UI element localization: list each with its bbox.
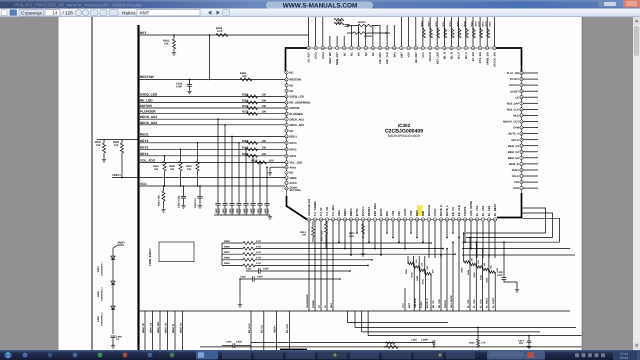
- wire right stub RXD: [523, 187, 538, 189]
- wire caps to ground bus: [239, 279, 241, 303]
- pin bottom EPP_RES: [373, 218, 376, 221]
- wire drop pin 24: [446, 221, 448, 237]
- svg-text:D306: D306: [97, 291, 100, 297]
- svg-text:100: 100: [302, 234, 307, 237]
- svg-text:10K: 10K: [170, 168, 175, 171]
- wire drop pin 25: [452, 221, 454, 233]
- capacitor C303 470P: [189, 79, 191, 81]
- svg-text:NC: NC: [290, 130, 294, 133]
- active window button: [196, 351, 218, 360]
- net MOTOR wire: [139, 107, 286, 109]
- wire drop pin 9: [356, 221, 358, 233]
- resistor R303 22K: [413, 256, 415, 267]
- pin top M2_R: [450, 46, 453, 49]
- svg-text:Найти:: Найти:: [122, 11, 136, 16]
- svg-text:R342: R342: [479, 274, 482, 280]
- window buttons: [598, 0, 623, 7]
- svg-text:BT_SW: BT_SW: [472, 52, 475, 62]
- svg-text:STATUS: STATUS: [509, 84, 519, 87]
- svg-text:VREF+: VREF+: [117, 242, 126, 245]
- net EE_CS wire: [263, 311, 265, 350]
- pin bottom RESET: [367, 218, 370, 221]
- svg-text:R457: R457: [224, 251, 230, 254]
- svg-text:IC302: IC302: [398, 123, 411, 128]
- net DECK_AD1 wire: [139, 118, 286, 120]
- svg-text:TU_ST: TU_ST: [320, 207, 323, 216]
- capacitor C308 100P: [503, 242, 505, 277]
- wire TMUTE vertical: [440, 255, 442, 311]
- svg-text:EE_CS: EE_CS: [432, 300, 435, 308]
- resistor R384 4.7K: [216, 33, 228, 36]
- svg-text:1.6MP: 1.6MP: [421, 339, 428, 342]
- svg-text:FL_CLK: FL_CLK: [479, 299, 482, 308]
- pin right MCLK: [520, 138, 523, 141]
- svg-text:NC: NC: [290, 90, 294, 93]
- svg-text:MEM_RST: MEM_RST: [336, 52, 339, 65]
- pin bottom MUTE_L: [445, 218, 448, 221]
- svg-text:REG1: REG1: [290, 136, 298, 139]
- svg-text:1SS355TE-17: 1SS355TE-17: [101, 286, 104, 301]
- pin right MEM_CK: [520, 150, 523, 153]
- wire drop pin 19: [416, 221, 418, 237]
- svg-text:AVss: AVss: [290, 166, 297, 169]
- wire drop pin 28: [470, 221, 472, 248]
- pin bottom BLKCLK: [427, 218, 430, 221]
- svg-text:TU_SDA: TU_SDA: [332, 205, 335, 216]
- svg-text:AUX_MUTE: AUX_MUTE: [450, 295, 453, 308]
- wire RST to RESTSW junction: [209, 35, 211, 79]
- net PLUNGER wire: [139, 113, 286, 115]
- pin bottom TU_CK: [325, 218, 328, 221]
- pin bottom AUX_MUTE: [469, 218, 472, 221]
- svg-text:C320: C320: [411, 339, 417, 342]
- svg-text:MEM_CS: MEM_CS: [149, 322, 152, 333]
- pin top VSS: [407, 46, 410, 49]
- svg-text:360P: 360P: [243, 208, 246, 214]
- svg-text:R344: R344: [467, 269, 470, 275]
- wire bottom bus 2: [348, 322, 449, 324]
- net VOL_JOG wire: [139, 161, 286, 163]
- ground below R390: [103, 158, 105, 160]
- svg-text:RMT: RMT: [408, 302, 411, 308]
- pin top PHOVD: [428, 46, 431, 49]
- pin top BT_SW: [471, 46, 474, 49]
- pin bottom MBP2: [349, 218, 352, 221]
- ground AVss: [269, 171, 271, 173]
- svg-text:EE_CLK: EE_CLK: [248, 323, 251, 333]
- svg-text:RE_LED: RE_LED: [140, 99, 153, 103]
- svg-text:R320: R320: [489, 21, 492, 27]
- wire jumper links: [347, 25, 358, 27]
- svg-text:1SS355TE-17: 1SS355TE-17: [101, 311, 104, 326]
- svg-text:R340: R340: [464, 20, 467, 26]
- pin right PCONT: [520, 77, 523, 80]
- wire drop pin 26: [458, 221, 460, 237]
- svg-text:100P: 100P: [336, 22, 342, 25]
- pin right RDS_CLK: [520, 108, 523, 111]
- svg-text:R378: R378: [242, 111, 249, 114]
- jumper WA109: [353, 32, 367, 35]
- svg-text:R456: R456: [224, 245, 230, 248]
- svg-text:R323: R323: [485, 20, 488, 26]
- wire drop pin 3: [320, 221, 322, 311]
- pin bottom SEG: [337, 218, 340, 221]
- wire right stub MEM_SO: [523, 157, 538, 159]
- svg-text:R313: R313: [449, 20, 452, 26]
- svg-text:R302: R302: [405, 268, 408, 274]
- svg-text:R459: R459: [224, 262, 230, 265]
- start orb: [4, 351, 12, 359]
- pin right RDS_DAF: [520, 102, 523, 105]
- resistor R387 100: [247, 148, 258, 151]
- pin 57 (left PLUNGER): [285, 112, 288, 115]
- wire right stub STATUS: [523, 84, 538, 86]
- ground stub: [239, 303, 241, 305]
- svg-text:VSS: VSS: [392, 210, 395, 216]
- wire right stub MEM_CK: [523, 151, 538, 153]
- wire AVss stub: [270, 166, 285, 168]
- svg-text:EE_CS: EE_CS: [261, 325, 264, 333]
- svg-text:CE: CE: [515, 96, 519, 99]
- svg-text:RIN: RIN: [386, 211, 389, 216]
- pin top M2_F: [464, 46, 467, 49]
- capacitor C308 360P: [231, 136, 233, 138]
- svg-text:MUTE_L: MUTE_L: [446, 205, 449, 216]
- pin right STATUS: [520, 83, 523, 86]
- resistor R343 100: [476, 241, 478, 243]
- wire drop pin 11: [368, 221, 370, 242]
- svg-text:C306: C306: [246, 208, 249, 214]
- svg-text:VCC: VCC: [402, 303, 405, 308]
- resistor R314 (top bank): [423, 28, 426, 38]
- ground below C314: [528, 345, 530, 347]
- svg-text:PHOVD: PHOVD: [429, 52, 432, 61]
- pin top MEM_RST: [335, 46, 338, 49]
- svg-text:KEY3: KEY3: [290, 142, 298, 145]
- svg-text:EE_CS: EE_CS: [452, 207, 455, 216]
- pin right MUTE_A: [520, 132, 523, 135]
- pin top NC: [350, 46, 353, 49]
- wire pullup rail: [97, 138, 139, 140]
- wire drop pin 2: [314, 221, 316, 311]
- svg-text:4.7K: 4.7K: [256, 262, 261, 265]
- svg-text:SSEQ_LED: SSEQ_LED: [140, 93, 158, 97]
- svg-text:SETTING: SETTING: [290, 189, 301, 192]
- wire drop pin 10: [362, 221, 364, 237]
- svg-text:C310: C310: [218, 208, 221, 214]
- resistor R318 (top bank): [430, 28, 433, 38]
- resistor R377 22K: [325, 221, 327, 224]
- resistor R456 4.7K: [222, 248, 243, 250]
- svg-text:R379: R379: [242, 105, 249, 108]
- resistor R458 4.7K: [222, 259, 243, 261]
- pin bottom CHANGE SW: [307, 218, 310, 221]
- pin 55 (left DECK_AD2): [285, 123, 288, 126]
- svg-text:XOUT: XOUT: [404, 208, 407, 216]
- svg-text:EPM: EPM: [513, 127, 519, 130]
- svg-text:10K: 10K: [114, 144, 119, 147]
- wire drop pin 18: [410, 221, 412, 233]
- svg-text:MDATA_OUT: MDATA_OUT: [503, 121, 519, 124]
- pin bottom ROUT: [379, 218, 382, 221]
- capacitor C309 360P: [224, 124, 226, 126]
- svg-text:C307: C307: [239, 208, 242, 214]
- svg-text:AUX_MUTE: AUX_MUTE: [470, 201, 473, 216]
- pin top ASP_CLK: [385, 46, 388, 49]
- pin 46 (left VREF): [285, 176, 288, 179]
- svg-text:100P: 100P: [497, 274, 503, 277]
- pin bottom TU_SDA: [331, 218, 334, 221]
- svg-text:DIVVcc: DIVVcc: [362, 206, 365, 216]
- svg-text:360P: 360P: [215, 208, 218, 214]
- resistor R302 22K: [407, 256, 409, 264]
- pin 45 (left AVCC): [285, 181, 288, 184]
- pin bottom VSS: [391, 218, 394, 221]
- svg-text:SYNC: SYNC: [434, 208, 437, 216]
- wire right stub SCLK: [523, 175, 538, 177]
- resistor R385 100: [247, 141, 258, 144]
- svg-text:NEW_MP: NEW_MP: [329, 52, 332, 64]
- svg-text:RE_LED(PMDN): RE_LED(PMDN): [290, 102, 310, 105]
- svg-text:R343: R343: [473, 272, 476, 278]
- pin right TXD: [520, 180, 523, 183]
- pin right PLAY_SW: [520, 71, 523, 74]
- bus spine (thick vertical rail): [137, 25, 139, 350]
- svg-text:MUTE_H: MUTE_H: [426, 298, 429, 308]
- capacitor C343 0.1: [199, 185, 201, 187]
- pin 56 (left DECK_AD1): [285, 118, 288, 121]
- svg-text:R304: R304: [416, 275, 419, 281]
- resistor R390 10K: [103, 139, 105, 143]
- svg-text:M1_F: M1_F: [458, 52, 461, 59]
- resistor R398 10K: [180, 149, 182, 151]
- wire drop pin 30: [482, 221, 484, 258]
- svg-text:DECK_AD1: DECK_AD1: [290, 118, 305, 121]
- svg-text:NC: NC: [290, 84, 294, 87]
- pin bottom BYTE: [355, 218, 358, 221]
- svg-text:DMT: DMT: [401, 52, 404, 58]
- svg-text:100: 100: [262, 100, 267, 103]
- pin bottom RMT: [415, 218, 418, 221]
- pin bottom TU_ST: [319, 218, 322, 221]
- resistor R380 100: [247, 101, 258, 104]
- pin 62 (left NC): [285, 84, 288, 87]
- svg-text:100: 100: [269, 159, 274, 162]
- svg-text:C382 0.022: C382 0.022: [178, 195, 181, 208]
- svg-text:DECK_AD1: DECK_AD1: [140, 115, 157, 119]
- svg-text:VOL_JOG: VOL_JOG: [290, 162, 303, 165]
- pin 54 (left NC): [285, 129, 288, 132]
- wire bottom bus 6: [251, 341, 434, 343]
- svg-text:MOTOR: MOTOR: [140, 104, 153, 108]
- svg-text:KEY1: KEY1: [140, 152, 149, 156]
- svg-text:MEM_SO: MEM_SO: [179, 322, 182, 333]
- pin 50 (left KEY1): [285, 154, 288, 157]
- wire EE_DAT2 vertical: [458, 238, 460, 312]
- pin right BUSY: [520, 168, 523, 171]
- net RST wire: [139, 34, 309, 36]
- wire drop pin 1: [308, 221, 310, 311]
- wire diode chain: [112, 248, 114, 334]
- wire drop pin 31: [488, 221, 490, 258]
- pin right MEM_CS: [520, 144, 523, 147]
- svg-text:100: 100: [262, 153, 267, 156]
- svg-text:DCDET: DCDET: [510, 90, 519, 93]
- svg-text:PLAY_SW: PLAY_SW: [507, 72, 520, 75]
- net SSEQ_LED wire: [139, 96, 286, 98]
- pin 64 (left NC): [285, 71, 288, 74]
- svg-text:SCLK: SCLK: [512, 175, 519, 178]
- svg-text:100: 100: [262, 140, 267, 143]
- svg-text:FL_CS1: FL_CS1: [476, 205, 479, 216]
- svg-text:MBP1: MBP1: [344, 208, 347, 216]
- svg-text:/ 128: / 128: [63, 11, 74, 16]
- pin bottom VSS: [409, 218, 412, 221]
- svg-text:C325: C325: [240, 276, 246, 279]
- svg-text:MCLK: MCLK: [512, 139, 520, 142]
- resistor R381 100: [247, 95, 258, 98]
- resistor R306 470: [424, 256, 426, 274]
- pin bottom FL_REST: [493, 218, 496, 221]
- capacitor C314 50V: [528, 335, 530, 337]
- svg-text:MEM_SO: MEM_SO: [508, 157, 519, 160]
- wire right stub DCDET: [523, 90, 538, 92]
- wire right risers: [522, 208, 545, 233]
- pin top JOG2: [314, 46, 317, 49]
- capacitor C306 360P: [245, 149, 247, 151]
- pin 61 (left NC): [285, 89, 288, 92]
- svg-text:SDA: SDA: [330, 303, 333, 308]
- net EE_DAT wire: [288, 311, 290, 350]
- svg-text:14: 14: [52, 11, 58, 16]
- net RE_LED wire: [139, 102, 286, 104]
- svg-text:100: 100: [262, 111, 267, 114]
- svg-text:WA110: WA110: [358, 21, 366, 24]
- pin bottom EE_CLK: [457, 218, 460, 221]
- svg-text:FL_DOUT: FL_DOUT: [492, 297, 495, 308]
- wire drop pin 8: [350, 221, 352, 255]
- svg-text:VCC: VCC: [422, 52, 425, 58]
- pin bottom RIN: [385, 218, 388, 221]
- svg-text:FL_CS1: FL_CS1: [467, 299, 470, 308]
- resistor R340 (top bank): [465, 28, 468, 38]
- svg-text:KEY3: KEY3: [140, 139, 149, 143]
- pin bottom DIVVcc: [361, 218, 364, 221]
- svg-text:FL_CS3: FL_CS3: [473, 299, 476, 308]
- net KEY2 wire: [139, 148, 286, 150]
- svg-text:KEY2: KEY2: [290, 148, 298, 151]
- svg-text:MICROPROCESSOR: MICROPROCESSOR: [388, 134, 421, 138]
- svg-text:D307: D307: [97, 266, 100, 272]
- svg-text:MEM_VP: MEM_VP: [142, 322, 145, 333]
- pin top NC: [364, 46, 367, 49]
- highlighted task + tray: [487, 351, 545, 360]
- svg-text:4.7K: 4.7K: [217, 30, 223, 33]
- resistor R304 22K: [418, 256, 420, 270]
- svg-text:VSS: VSS: [408, 52, 411, 57]
- svg-text:R321: R321: [471, 20, 474, 26]
- wire bottom bus 7: [200, 346, 582, 348]
- net DECK_AD2 wire: [139, 124, 286, 126]
- pin right CE: [520, 96, 523, 99]
- svg-text:360P: 360P: [264, 208, 267, 214]
- junction VREF: [121, 177, 123, 179]
- svg-text:22K: 22K: [426, 265, 429, 269]
- svg-text:FL_CLK: FL_CLK: [488, 205, 491, 216]
- wire right stub RDS_DAF: [523, 102, 538, 104]
- svg-text:RDS_CLK: RDS_CLK: [507, 109, 519, 112]
- resistor R313 (top bank): [451, 28, 454, 38]
- svg-text:XIN: XIN: [398, 211, 401, 216]
- svg-text:RESTSW: RESTSW: [290, 79, 302, 82]
- svg-text:360P: 360P: [222, 208, 225, 214]
- resistor R378 100: [247, 112, 258, 115]
- capacitor C366 0.1: [111, 335, 116, 337]
- svg-text:MEM_CS: MEM_CS: [508, 145, 519, 148]
- svg-text:FL_CS3: FL_CS3: [482, 205, 485, 216]
- pin 44 (left DEMO): [285, 187, 288, 190]
- svg-text:TMUTE: TMUTE: [464, 206, 467, 216]
- svg-text:NC: NC: [290, 72, 294, 75]
- pin right RXD: [520, 186, 523, 189]
- svg-text:NC: NC: [358, 52, 361, 56]
- wire drop pin 17: [404, 221, 406, 248]
- resistor R323 (top bank): [487, 28, 490, 38]
- svg-text:0.022: 0.022: [236, 341, 242, 344]
- pin top BP1: [393, 46, 396, 49]
- svg-text:OBLKCK: OBLKCK: [414, 298, 417, 308]
- svg-text:DECK_AD2: DECK_AD2: [290, 124, 305, 127]
- svg-text:100P: 100P: [263, 268, 269, 271]
- wire drop pin 22: [434, 221, 436, 258]
- wire drop pin 23: [440, 221, 442, 258]
- svg-text:360P: 360P: [257, 208, 260, 214]
- pin top POS_SW: [478, 46, 481, 49]
- svg-text:C305: C305: [253, 208, 256, 214]
- svg-text:ASP_DNT: ASP_DNT: [379, 52, 382, 65]
- resistor R301 4.7K: [362, 221, 364, 224]
- wire right stub TXD: [523, 181, 538, 183]
- ground below C303: [189, 90, 191, 92]
- svg-text:SYNC: SYNC: [420, 301, 423, 308]
- pin right DCDET: [520, 90, 523, 93]
- pin top OPEN_SW: [486, 46, 489, 49]
- svg-text:JOG1: JOG1: [322, 52, 325, 59]
- svg-text:EE_CLK: EE_CLK: [458, 205, 461, 216]
- svg-text:MOTOR: MOTOR: [290, 107, 300, 110]
- wire drop pin 12: [374, 221, 376, 248]
- wire right stub MDATA_OUT: [523, 121, 538, 123]
- svg-text:TMUTE: TMUTE: [444, 300, 447, 308]
- svg-text:BE_DNT: BE_DNT: [415, 52, 418, 63]
- page border line: [91, 17, 93, 350]
- net MEM_RST wire: [159, 311, 161, 350]
- svg-text:R455: R455: [224, 240, 230, 243]
- svg-text:TAPE_EJECT: TAPE_EJECT: [148, 248, 152, 266]
- svg-text:R381: R381: [242, 94, 249, 97]
- pin bottom FL_CLK: [487, 218, 490, 221]
- svg-text:FL_REST: FL_REST: [494, 203, 497, 216]
- svg-text:4.7K: 4.7K: [256, 245, 261, 248]
- pin top M1_F: [457, 46, 460, 49]
- resistor R388 100: [247, 154, 258, 157]
- wire right stub MUTE_A: [523, 133, 538, 135]
- pin 48 (left AVss): [285, 166, 288, 169]
- svg-text:MUTE_A: MUTE_A: [508, 133, 519, 136]
- title text pill: [266, 2, 373, 9]
- ground below C308: [516, 288, 518, 290]
- svg-text:10K: 10K: [187, 168, 192, 171]
